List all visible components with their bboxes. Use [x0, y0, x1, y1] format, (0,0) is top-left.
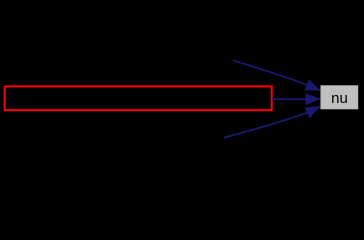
svg-text:nu: nu	[331, 90, 348, 107]
